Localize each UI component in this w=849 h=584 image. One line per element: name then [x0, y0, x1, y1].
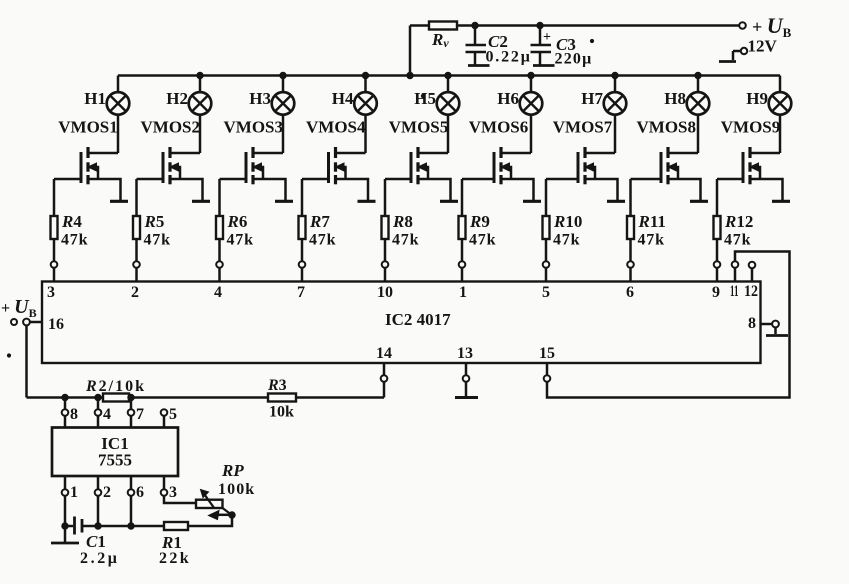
wire R6 to node: [218, 239, 221, 262]
ground C3: [533, 64, 555, 67]
svg-text:C1: C1: [86, 532, 106, 551]
node bus junction H6: [528, 72, 534, 78]
node pin 2 junction: [95, 523, 101, 529]
transistor VMOS4: [302, 118, 368, 201]
wire R9 to node: [461, 239, 464, 262]
pin 1 label IC2: [459, 284, 467, 301]
svg-text:R2/10k: R2/10k: [85, 378, 146, 395]
node output pin 4: [216, 261, 223, 268]
transistor VMOS7: [546, 118, 618, 201]
transistor VMOS2: [137, 118, 203, 201]
transistor VMOS3: [220, 118, 286, 201]
wire lamp H6 to drain VMOS6: [530, 114, 533, 153]
wire top supply rail: [410, 24, 740, 27]
node output pin 2: [133, 261, 140, 268]
lamp H3: [249, 89, 294, 115]
node output pin 3: [51, 261, 58, 268]
svg-text:H2: H2: [166, 89, 188, 108]
wire lamp supply bus: [118, 74, 780, 76]
node IC1 pin 7 junction: [128, 394, 134, 400]
svg-text:47k: 47k: [724, 232, 751, 249]
svg-text:+ UB: + UB: [1, 296, 37, 320]
svg-text:8: 8: [70, 406, 78, 423]
ground source bar VMOS8: [690, 200, 708, 203]
node pin 11: [732, 261, 739, 281]
wire node to IC2 pin 10: [384, 268, 387, 282]
resistor R11: [627, 212, 666, 249]
wire lamp H9 to drain VMOS9: [779, 114, 782, 153]
pin 6 label IC2: [626, 284, 634, 301]
node output pin 7: [299, 261, 306, 268]
ground pin 8: [766, 334, 788, 337]
svg-text:47k: 47k: [638, 232, 665, 249]
node bus junction H8: [695, 72, 701, 78]
wire RP wiper arrow: [209, 511, 233, 520]
svg-text:2: 2: [131, 284, 139, 301]
transistor VMOS5: [385, 118, 451, 201]
svg-text:100k: 100k: [218, 481, 255, 498]
node output pin 1: [459, 261, 466, 268]
svg-text:VMOS8: VMOS8: [637, 118, 697, 137]
svg-text:12: 12: [744, 283, 758, 300]
ground source bar VMOS3: [275, 200, 293, 203]
svg-text:47k: 47k: [469, 232, 496, 249]
transistor VMOS8: [631, 118, 701, 201]
wire R3 to pin 14: [296, 396, 384, 399]
wire R1 to RP wiper column: [188, 515, 232, 526]
wire node to IC2 pin 6: [629, 268, 632, 282]
svg-text:8: 8: [748, 315, 756, 332]
wire terminal to IC2 pin 16: [30, 321, 41, 324]
wire bus to lamp H1: [117, 76, 120, 93]
resistor R1: [159, 522, 191, 567]
svg-text:VMOS1: VMOS1: [58, 118, 118, 137]
ground source bar VMOS2: [192, 200, 210, 203]
svg-text:R10: R10: [553, 212, 582, 231]
pin 7 label IC2: [297, 284, 305, 301]
svg-text:220μ: 220μ: [555, 51, 593, 68]
wire bus to lamp H2: [199, 76, 202, 93]
svg-text:VMOS4: VMOS4: [306, 118, 366, 137]
resistor R8: [382, 212, 420, 249]
svg-text:R8: R8: [392, 212, 413, 231]
svg-text:11: 11: [730, 283, 739, 300]
svg-text:R6: R6: [227, 212, 248, 231]
wire pin 8: [761, 321, 779, 334]
wire R5 to node: [135, 239, 138, 262]
wire bus to lamp H9: [779, 76, 782, 93]
wire R8 to node: [384, 239, 387, 262]
wire Rv branch to lamp bus: [407, 26, 413, 79]
svg-text:47k: 47k: [144, 232, 171, 249]
lamp H4: [332, 89, 377, 115]
wire bus to lamp H4: [364, 76, 367, 93]
ground source bar VMOS6: [523, 200, 541, 203]
node pin 12: [749, 262, 756, 282]
terminal 12V: [733, 37, 778, 61]
svg-text:6: 6: [136, 484, 144, 501]
svg-text:2.2μ: 2.2μ: [80, 550, 119, 567]
resistor R7: [299, 212, 337, 249]
wire lamp H4 to drain VMOS4: [364, 114, 367, 153]
svg-text:H6: H6: [497, 89, 519, 108]
wire R10 to node: [545, 239, 548, 262]
terminal +UB supply input: [739, 13, 791, 40]
svg-text:7555: 7555: [98, 451, 132, 470]
wire gate column R7: [301, 179, 304, 216]
ground pin 1: [51, 526, 79, 543]
node output pin 9: [714, 261, 721, 268]
wire node to IC2 pin 3: [53, 268, 56, 282]
ground source bar VMOS1: [110, 200, 128, 203]
resistor R9: [459, 212, 497, 249]
svg-text:5: 5: [542, 284, 550, 301]
ground source bar VMOS5: [440, 200, 458, 203]
svg-text:3: 3: [169, 484, 177, 501]
ground pin 13: [455, 396, 478, 399]
wire +UB down to supply row: [27, 326, 104, 398]
pin 9 label IC2: [712, 284, 720, 301]
wire bus to lamp H3: [282, 76, 285, 93]
pin 2 label IC2: [131, 284, 139, 301]
ground source bar VMOS7: [607, 200, 625, 203]
label C2 value: [486, 32, 532, 66]
svg-text:4: 4: [214, 284, 222, 301]
node pin 15: [544, 363, 551, 382]
svg-text:R3: R3: [267, 377, 287, 394]
wire gate column R5: [135, 179, 138, 216]
svg-text:R7: R7: [309, 212, 330, 231]
wire R4 to node: [53, 239, 56, 262]
pin 3 label IC2: [47, 284, 55, 301]
svg-text:2: 2: [103, 484, 111, 501]
wire bus to lamp H8: [697, 76, 700, 93]
wire R12 to node: [716, 239, 719, 262]
lamp H1: [84, 89, 129, 115]
svg-text:VMOS2: VMOS2: [141, 118, 201, 137]
svg-text:VMOS6: VMOS6: [469, 118, 529, 137]
resistor R5: [133, 212, 171, 249]
pin 11 label IC2: [730, 283, 739, 300]
svg-text:H9: H9: [746, 89, 768, 108]
wire lamp H7 to drain VMOS7: [614, 114, 617, 153]
svg-text:R11: R11: [638, 212, 666, 231]
svg-text:3: 3: [47, 284, 55, 301]
wire gate column R12: [716, 179, 719, 216]
wire bus to lamp H5: [447, 76, 450, 93]
resistor Rv: [429, 22, 457, 51]
wire node to IC2 pin 1: [461, 268, 464, 282]
pin 13 label IC2: [457, 345, 473, 362]
capacitor C3: [531, 22, 552, 64]
svg-text:R9: R9: [469, 212, 490, 231]
wire R7 to node: [301, 239, 304, 262]
node RP wiper junction: [229, 512, 235, 518]
ground source bar VMOS4: [358, 200, 376, 203]
svg-text:VMOS9: VMOS9: [721, 118, 781, 137]
pin 16 label IC2: [48, 316, 64, 333]
resistor R6: [216, 212, 254, 249]
pin 7 IC1: [128, 398, 144, 428]
svg-text:4: 4: [103, 406, 111, 423]
lamp H5: [414, 89, 459, 115]
op-amp IC2 4017 box: [42, 282, 761, 364]
svg-text:H5: H5: [414, 89, 436, 108]
node pin 6 junction: [128, 523, 134, 529]
svg-text:H7: H7: [581, 89, 603, 108]
wire lamp H8 to drain VMOS8: [697, 114, 700, 153]
pin 12 label IC2: [744, 283, 758, 300]
svg-text:5: 5: [169, 406, 177, 423]
pin 1 IC1: [62, 476, 78, 526]
ground 12V terminal: [719, 60, 736, 63]
svg-text:H4: H4: [332, 89, 354, 108]
svg-text:1: 1: [70, 484, 78, 501]
node output pin 5: [543, 261, 550, 268]
svg-text:47k: 47k: [553, 232, 580, 249]
svg-text:+: +: [543, 30, 551, 45]
svg-text:H1: H1: [84, 89, 106, 108]
lamp H8: [664, 89, 709, 115]
svg-text:IC2 4017: IC2 4017: [385, 310, 451, 329]
svg-text:6: 6: [626, 284, 634, 301]
lamp H2: [166, 89, 211, 115]
transistor VMOS9: [717, 118, 783, 201]
label C3 value: [555, 35, 594, 68]
speck artifact left margin: [7, 354, 10, 357]
svg-text:R4: R4: [61, 212, 82, 231]
svg-text:22k: 22k: [159, 550, 191, 567]
node bus junction H7: [612, 72, 618, 78]
potentiometer RP: [196, 461, 255, 515]
wire R11 to node: [629, 239, 632, 262]
svg-text:10k: 10k: [269, 404, 294, 421]
terminal +UB left: [1, 296, 37, 325]
node IC1 pin 8 junction: [62, 394, 68, 400]
node output pin 6: [627, 261, 634, 268]
wire bus to lamp H6: [530, 76, 533, 93]
lamp H9: [746, 89, 791, 115]
wire node to IC2 pin 7: [301, 268, 304, 282]
node bus junction H4: [362, 72, 368, 78]
pin 15 label IC2: [539, 345, 555, 362]
svg-text:Rv: Rv: [431, 30, 449, 50]
svg-text:14: 14: [376, 345, 392, 362]
node pin 1 junction: [62, 523, 68, 529]
svg-text:H8: H8: [664, 89, 686, 108]
wire gate column R4: [53, 179, 56, 216]
pin 5 label IC2: [542, 284, 550, 301]
pin 3 IC1: [161, 476, 196, 503]
node bus junction H3: [280, 72, 286, 78]
pin 2 IC1: [95, 476, 111, 526]
wire node to IC2 pin 9: [716, 268, 719, 282]
svg-text:13: 13: [457, 345, 473, 362]
svg-text:VMOS3: VMOS3: [224, 118, 284, 137]
wire node to IC2 pin 5: [545, 268, 548, 282]
svg-text:16: 16: [48, 316, 64, 333]
resistor R4: [51, 212, 89, 249]
svg-text:15: 15: [539, 345, 555, 362]
wire lamp H1 to drain VMOS1: [117, 114, 120, 153]
node output pin 10: [382, 261, 389, 268]
wire lamp H5 to drain VMOS5: [447, 114, 450, 153]
pin 4 label IC2: [214, 284, 222, 301]
pin 4 IC1: [95, 398, 111, 428]
wire gate column R8: [384, 179, 387, 216]
node IC1 pin 4 junction: [95, 394, 101, 400]
svg-text:H3: H3: [249, 89, 271, 108]
wire node to IC2 pin 4: [218, 268, 221, 282]
wire R2 to R3: [129, 396, 268, 399]
svg-text:47k: 47k: [309, 232, 336, 249]
svg-text:R5: R5: [144, 212, 165, 231]
ground source bar VMOS9: [772, 200, 790, 203]
wire gate column R10: [545, 179, 548, 216]
wire lamp H2 to drain VMOS2: [199, 114, 202, 153]
svg-text:0.22μ: 0.22μ: [486, 49, 532, 66]
svg-text:10: 10: [377, 284, 393, 301]
node bus junction H5: [445, 72, 451, 78]
capacitor C2: [466, 22, 487, 64]
wire node to IC2 pin 2: [135, 268, 138, 282]
svg-text:47k: 47k: [61, 232, 88, 249]
wire gate column R6: [218, 179, 221, 216]
node bus junction H2: [197, 72, 203, 78]
label C1 value: [80, 532, 119, 567]
resistor R10: [543, 212, 583, 249]
lamp H7: [581, 89, 626, 115]
lamp H6: [497, 89, 542, 115]
wire gate column R11: [629, 179, 632, 216]
wire pin2 to pin6: [98, 525, 164, 528]
op-amp IC1 7555 box: [52, 428, 178, 477]
svg-text:RP: RP: [221, 461, 244, 480]
svg-text:VMOS7: VMOS7: [553, 118, 613, 137]
resistor R12: [714, 212, 754, 249]
pin 5 IC1: [161, 406, 177, 428]
svg-text:R12: R12: [724, 212, 753, 231]
transistor VMOS6: [462, 118, 534, 201]
pin 6 IC1: [128, 476, 144, 526]
svg-text:VMOS5: VMOS5: [389, 118, 449, 137]
capacitor C1: [65, 517, 98, 535]
wire pin 11 to pin 15 loop: [547, 252, 790, 398]
pin 10 label IC2: [377, 284, 393, 301]
svg-text:7: 7: [136, 406, 144, 423]
pin 8 IC1: [62, 398, 78, 428]
pin 8 label IC2: [748, 315, 756, 332]
wire bus to lamp H7: [614, 76, 617, 93]
resistor R2: [85, 378, 146, 402]
wire gate column R9: [461, 179, 464, 216]
svg-text:1: 1: [459, 284, 467, 301]
resistor R3: [267, 377, 296, 421]
svg-text:9: 9: [712, 284, 720, 301]
pin 14 label IC2: [376, 345, 392, 362]
svg-text:47k: 47k: [392, 232, 419, 249]
wire lamp H3 to drain VMOS3: [282, 114, 285, 153]
svg-text:47k: 47k: [227, 232, 254, 249]
svg-text:7: 7: [297, 284, 305, 301]
ground C2: [468, 64, 490, 67]
svg-text:12V: 12V: [748, 37, 778, 56]
node pin 14: [381, 363, 388, 398]
transistor VMOS1: [54, 118, 121, 201]
node pin 13: [463, 363, 470, 397]
